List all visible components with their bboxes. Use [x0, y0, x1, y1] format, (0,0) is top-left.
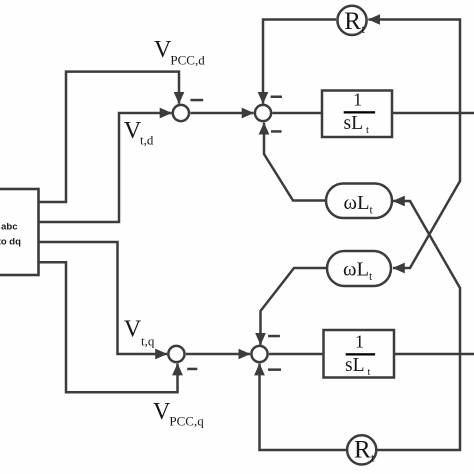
- summing junction S3: [168, 346, 184, 362]
- svg-text:t: t: [366, 125, 369, 136]
- wire sum S4 through block 1/sLt(q) to right edge (i_q): [269, 353, 474, 356]
- svg-text:PCC,q: PCC,q: [169, 414, 204, 429]
- svg-text:ωL: ωL: [343, 258, 369, 280]
- wire wLt-top out to sum S2 bottom: [264, 123, 326, 201]
- label V_t,d: [124, 118, 154, 148]
- wire cross B: iq node up-diagonal into wLt top: [393, 201, 460, 354]
- svg-text:V: V: [154, 37, 172, 63]
- wire sum S2 through block 1/sLt to right edge (i_d): [272, 112, 474, 115]
- block wLt bottom: [327, 251, 391, 286]
- summing junction S2: [255, 105, 271, 121]
- label Rt bottom: [354, 437, 375, 465]
- minus sign at S1 top: [190, 99, 203, 102]
- block 1/sLt bottom: [324, 330, 395, 378]
- label 1/sLt top: numerator, bar, denominator: [344, 90, 376, 136]
- svg-text:t,q: t,q: [141, 334, 155, 349]
- wire sum S1 to sum S2: [190, 112, 253, 115]
- svg-text:1: 1: [355, 332, 364, 352]
- label V_t,q: [124, 317, 155, 349]
- wire Rt-bottom out left, up into sum S4 bottom: [260, 364, 347, 450]
- minus sign at S4 bottom: [268, 368, 281, 371]
- svg-text:t,d: t,d: [140, 133, 154, 148]
- label 1/sLt bottom: numerator, bar, denominator: [345, 332, 375, 378]
- block Rt bottom: [347, 435, 376, 464]
- wire top feedback: node at x460 up to Rt, arrow into Rt: [368, 20, 460, 114]
- wire cross A: id node down-diagonal into wLt bottom: [393, 113, 460, 268]
- svg-text:ωL: ωL: [344, 192, 370, 214]
- block wLt top: [326, 184, 392, 219]
- svg-text:PCC,d: PCC,d: [170, 53, 205, 68]
- svg-text:sL: sL: [344, 113, 364, 134]
- svg-text:V: V: [153, 399, 171, 425]
- wire wLt-bottom out to sum S4 top: [261, 268, 328, 345]
- minus sign at S2 top: [271, 96, 282, 99]
- block abc-to-dq transform: [0, 189, 39, 275]
- label V_PCC,q: [153, 399, 204, 429]
- label wLt top: [344, 192, 374, 217]
- minus sign at S4 top: [268, 335, 280, 338]
- label Rt top: [344, 8, 365, 36]
- svg-text:t: t: [368, 367, 371, 378]
- summing junction S4: [251, 346, 267, 362]
- block 1/sLt top: [322, 91, 392, 138]
- svg-text:sL: sL: [345, 355, 365, 376]
- svg-text:R: R: [344, 8, 361, 35]
- wire Rt out left, down into sum S2 top: [263, 20, 336, 104]
- wire Vt,q : abc-dq block out3 to sum S3 left: [38, 242, 167, 354]
- svg-text:to dq: to dq: [0, 237, 21, 248]
- svg-text:abc: abc: [1, 222, 17, 233]
- wire bottom feedback: iq node down to Rt bottom: [378, 354, 461, 450]
- label wLt bottom: [343, 258, 373, 283]
- minus sign at S3 bottom: [187, 368, 197, 371]
- label V_PCC,d: [154, 37, 205, 68]
- svg-text:1: 1: [353, 90, 362, 110]
- wire Vpcc,d : abc-dq block out1 to sum S1 top: [38, 72, 179, 202]
- svg-text:V: V: [124, 317, 142, 343]
- wire sum S3 to sum S4: [186, 353, 250, 356]
- wire Vt,d : abc-dq block out2 to sum S1 left: [38, 113, 172, 222]
- block Rt top: [337, 6, 366, 35]
- wire Vpcc,q : abc-dq block out4 to sum S3 bottom: [38, 262, 178, 392]
- svg-text:R: R: [354, 437, 371, 464]
- summing junction S1: [173, 105, 189, 121]
- minus sign at S2 bottom: [271, 130, 282, 133]
